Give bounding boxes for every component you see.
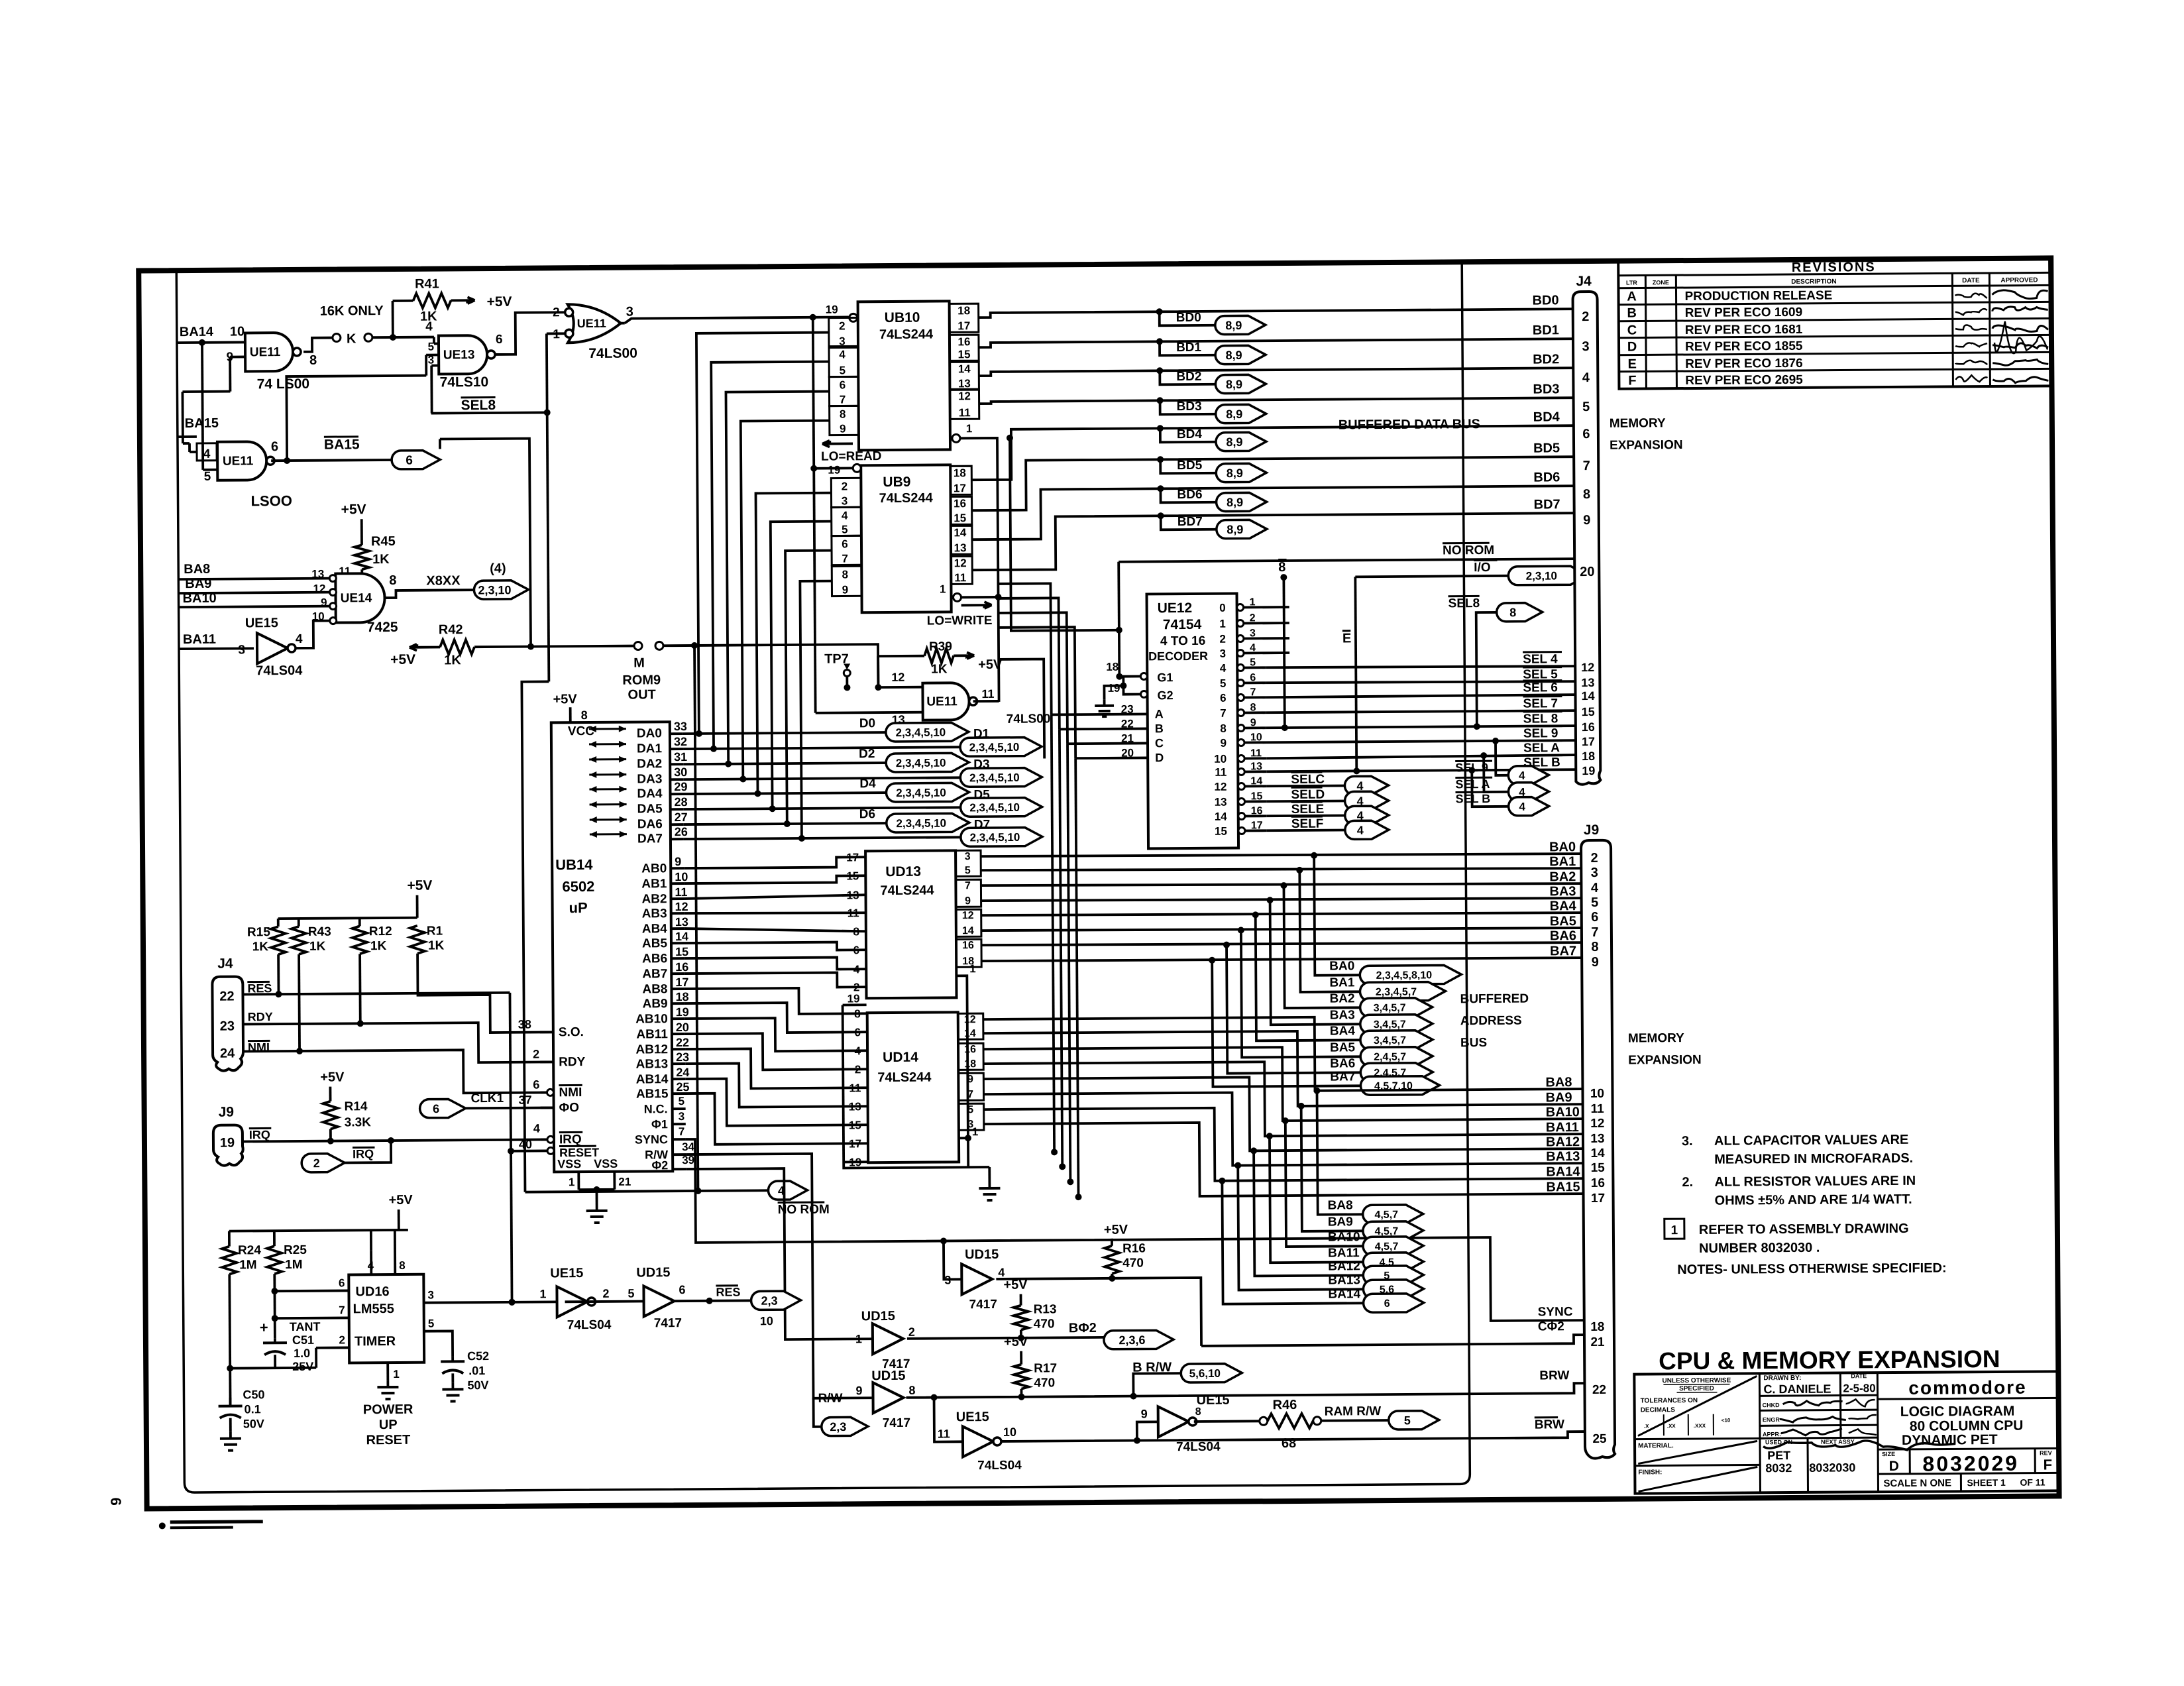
svg-text:1: 1 [855,1332,862,1345]
svg-text:D6: D6 [859,807,875,821]
svg-text:7417: 7417 [969,1298,997,1312]
capacitor C52 [451,1357,454,1361]
svg-text:12: 12 [962,910,974,921]
svg-text:2: 2 [553,306,560,319]
svg-text:+5V: +5V [1003,1278,1028,1292]
svg-text:6: 6 [533,1078,539,1092]
svg-text:1: 1 [966,422,973,435]
svg-text:10: 10 [760,1314,773,1327]
svg-text:AB12: AB12 [635,1042,668,1056]
pin 4 box UE11b [197,443,217,461]
svg-text:B: B [1155,722,1164,735]
svg-text:SYNC: SYNC [1538,1305,1573,1319]
svg-text:17: 17 [675,976,688,989]
svg-text:BA3: BA3 [1330,1008,1355,1022]
svg-text:22: 22 [219,989,234,1004]
wire UD15b output via R16 node [996,1278,1112,1279]
svg-text:4: 4 [425,320,433,334]
svg-text:1: 1 [393,1368,400,1380]
wire R/W down to buffer UD15d [686,1153,871,1399]
nand gate UE11c (negative-OR) 74LS00 [568,304,621,343]
UD16 pin 6 [274,1290,349,1293]
svg-text:BA8: BA8 [1328,1198,1353,1212]
svg-text:AB6: AB6 [642,952,667,966]
svg-text:DA2: DA2 [637,757,662,771]
svg-text:OF 11: OF 11 [2020,1477,2045,1487]
svg-text:BA13: BA13 [1328,1273,1360,1287]
svg-text:1M: 1M [239,1258,257,1272]
svg-text:470: 470 [1034,1317,1055,1331]
svg-text:uP: uP [569,899,588,916]
svg-text:S.O.: S.O. [559,1025,584,1039]
svg-text:UB10: UB10 [885,310,920,325]
svg-text:27: 27 [675,811,688,824]
CPU DA0-DA7 pins with arrows [589,728,626,730]
svg-text:BA15: BA15 [324,437,360,452]
svg-text:6: 6 [339,1276,345,1289]
UD16 pin 7 [275,1317,349,1320]
svg-text:BA10: BA10 [1546,1105,1580,1119]
svg-text:2.: 2. [1682,1175,1693,1190]
svg-text:R/W: R/W [818,1392,842,1406]
svg-text:SELF: SELF [1291,817,1324,831]
svg-text:10: 10 [1003,1426,1016,1439]
svg-text:12: 12 [954,557,967,569]
svg-text:17: 17 [954,482,966,494]
wire jumper to UE11d pin 12 [663,644,922,689]
svg-text:8: 8 [1220,722,1227,735]
svg-text:.01: .01 [468,1364,485,1377]
svg-text:9: 9 [1220,737,1227,750]
svg-text:8: 8 [842,568,849,581]
svg-text:4: 4 [1519,769,1525,782]
svg-text:8: 8 [840,408,846,420]
svg-text:SHEET 1: SHEET 1 [1967,1477,2006,1488]
svg-text:22: 22 [676,1036,689,1049]
svg-text:REV PER ECO 1609: REV PER ECO 1609 [1685,306,1803,320]
svg-text:UD15: UD15 [871,1369,905,1383]
svg-text:4,5,7: 4,5,7 [1375,1241,1399,1253]
svg-text:1K: 1K [309,940,326,954]
svg-text:Φ1: Φ1 [651,1117,668,1131]
svg-text:18: 18 [957,304,970,317]
svg-text:AB13: AB13 [636,1057,669,1071]
svg-text:74LS04: 74LS04 [256,663,303,678]
svg-text:OHMS ±5% AND ARE 1/4 WATT.: OHMS ±5% AND ARE 1/4 WATT. [1715,1192,1912,1208]
svg-text:LOGIC DIAGRAM: LOGIC DIAGRAM [1900,1404,2015,1420]
svg-text:1: 1 [569,1176,575,1188]
UB10 pin 19 enable bubble [849,313,857,321]
svg-text:3: 3 [679,1110,685,1123]
svg-text:3.3K: 3.3K [345,1115,372,1129]
svg-text:BA1: BA1 [1329,976,1355,989]
svg-text:R41: R41 [415,277,439,292]
svg-text:6: 6 [679,1283,685,1296]
svg-text:UD14: UD14 [883,1050,918,1065]
svg-text:LSOO: LSOO [250,492,292,509]
svg-text:5: 5 [839,364,846,376]
wire UD15b input from SYNC line [944,1241,961,1279]
svg-text:8: 8 [309,353,317,368]
svg-text:UB9: UB9 [883,475,910,490]
svg-text:1K: 1K [428,938,445,952]
svg-text:C: C [1627,323,1637,338]
svg-text:+5V: +5V [320,1070,345,1084]
svg-text:NEXT ASSY: NEXT ASSY [1821,1438,1855,1445]
svg-text:33: 33 [674,720,687,733]
svg-text:REV: REV [2040,1449,2052,1456]
wires BA8-BA15 staircase from UD14 to J9 [983,1015,1583,1093]
svg-text:14: 14 [954,526,967,539]
svg-text:80 COLUMN CPU: 80 COLUMN CPU [1910,1418,2024,1434]
svg-text:2: 2 [339,1333,345,1346]
svg-text:UE15: UE15 [956,1410,989,1424]
size and drawing number row [1878,1473,2059,1474]
svg-text:8,9: 8,9 [1225,319,1242,332]
svg-text:32: 32 [674,735,687,748]
svg-text:19: 19 [826,304,838,316]
svg-text:SEL8: SEL8 [461,398,496,413]
svg-text:+5V: +5V [1004,1335,1028,1349]
svg-text:21: 21 [618,1176,631,1188]
svg-text:IRQ: IRQ [249,1128,270,1141]
wire R1 to CPU S.O. pin 38 [417,952,553,1033]
wires CPU AB8-AB15 cascade to UD14 [684,987,867,1015]
svg-text:15: 15 [958,348,971,361]
UB10 left pin pair brackets [829,317,858,347]
svg-text:R46: R46 [1273,1398,1297,1412]
wire UE11d output to enable riser [973,700,999,702]
wire RES from J4-22 [243,993,510,995]
svg-text:DYNAMIC PET: DYNAMIC PET [1902,1432,1998,1448]
svg-text:+5V: +5V [1104,1223,1128,1237]
svg-text:4,5,7: 4,5,7 [1374,1209,1398,1221]
BA0-BA7 flag drops [1311,852,1317,859]
decoder UE12 74154 4-to-16 [1147,594,1239,849]
svg-text:2,3,10: 2,3,10 [1526,569,1557,582]
svg-text:AB8: AB8 [642,982,667,996]
svg-text:ALL RESISTOR VALUES ARE IN: ALL RESISTOR VALUES ARE IN [1714,1174,1916,1190]
wire IRQ flag tap [345,1141,391,1162]
used on box [1760,1437,1878,1438]
svg-text:3,4,5,7: 3,4,5,7 [1374,1035,1406,1046]
wires BA0-BA7 from UD13 to J9 [981,852,1581,858]
resistor R24 1M [228,1231,231,1247]
sheet outer border frame [138,258,2059,1508]
wire NMI from J4-24 [243,1049,547,1094]
svg-text:15: 15 [849,1119,861,1131]
capacitor C50 [229,1398,232,1406]
svg-text:1M: 1M [285,1258,303,1272]
svg-text:10: 10 [675,870,688,883]
svg-text:8,9: 8,9 [1226,349,1242,362]
inner drawing frame [176,264,1470,1492]
wire SEL8 chain down to NO ROM logic [521,681,552,1192]
svg-text:DA4: DA4 [637,787,663,801]
wire NO ROM riser down from DA area [694,646,698,1191]
svg-text:2: 2 [1219,633,1226,646]
svg-text:BA9: BA9 [1328,1215,1353,1229]
svg-text:C. DANIELE: C. DANIELE [1763,1382,1831,1396]
svg-text:1K: 1K [444,653,461,667]
svg-text:74LS244: 74LS244 [880,883,934,899]
svg-text:BA0: BA0 [1549,840,1576,854]
svg-text:A: A [1627,290,1637,304]
svg-text:4: 4 [1519,801,1525,813]
svg-text:2-5-80: 2-5-80 [1843,1382,1875,1394]
svg-text:DA7: DA7 [637,832,663,846]
svg-text:6: 6 [853,944,860,956]
resistor R43 1K [292,927,306,954]
svg-text:CΦ2: CΦ2 [1538,1320,1564,1333]
svg-text:REFER TO ASSEMBLY DRAWING: REFER TO ASSEMBLY DRAWING [1699,1221,1909,1237]
svg-text:LM555: LM555 [353,1302,394,1316]
svg-text:2,3,4,5,10: 2,3,4,5,10 [896,817,946,830]
svg-text:E: E [1627,357,1636,372]
svg-text:RDY: RDY [248,1010,273,1023]
svg-text:+5V: +5V [553,692,577,706]
svg-text:4: 4 [1357,824,1364,837]
svg-text:UB14: UB14 [555,856,593,873]
svg-text:9: 9 [1592,955,1599,970]
svg-text:D: D [1627,340,1637,355]
wire C02 to J9 pin 21 [1201,1335,1584,1346]
svg-text:29: 29 [674,780,687,793]
svg-text:7: 7 [339,1304,345,1316]
svg-text:8,9: 8,9 [1227,467,1243,480]
svg-text:21: 21 [1590,1335,1605,1349]
svg-text:5: 5 [842,523,848,535]
svg-text:R13: R13 [1034,1302,1057,1316]
svg-text:16: 16 [964,1044,976,1055]
svg-text:EXPANSION: EXPANSION [1628,1053,1702,1068]
wire UE11c output to UB10 pin19 [621,322,625,325]
svg-text:BA9: BA9 [1545,1090,1572,1105]
svg-text:REVISIONS: REVISIONS [1792,260,1876,275]
svg-text:2,3,4,5,10: 2,3,4,5,10 [896,787,946,800]
svg-text:REV PER ECO 1855: REV PER ECO 1855 [1685,339,1803,354]
svg-text:11: 11 [981,687,994,701]
svg-text:12: 12 [958,390,971,402]
svg-text:25: 25 [676,1080,689,1094]
BA8-BA14 flag drops [1313,1088,1320,1094]
svg-text:UE14: UE14 [341,591,372,605]
svg-text:19: 19 [676,1005,689,1019]
wire I/O flag tap [1355,576,1508,577]
svg-text:2,3,4,5,8,10: 2,3,4,5,8,10 [1376,970,1433,982]
flag 2,3 (R/W from sheets) [822,1417,868,1435]
tolerances diagonal [1637,1376,1757,1435]
svg-text:AB5: AB5 [642,936,668,950]
svg-text:F: F [1628,374,1636,388]
svg-text:8,9: 8,9 [1226,435,1242,449]
svg-text:CPU & MEMORY EXPANSION: CPU & MEMORY EXPANSION [1659,1345,2000,1375]
wire UE11b output to flag [271,460,392,461]
svg-text:3,4,5,7: 3,4,5,7 [1374,1019,1406,1031]
address select bus verticals up and left [998,583,1051,715]
svg-text:BD3: BD3 [1177,400,1202,414]
svg-text:6: 6 [854,1026,861,1039]
svg-text:UE15: UE15 [245,616,278,630]
svg-text:2,3,4,5,10: 2,3,4,5,10 [896,726,946,740]
svg-text:BA15: BA15 [1546,1180,1580,1194]
UD16 pin 1 ground [386,1363,389,1380]
svg-text:UD15: UD15 [861,1309,895,1323]
SELC-SELF wires and flags to sheet 4 [1266,785,1344,788]
svg-text:BA6: BA6 [1330,1056,1355,1070]
svg-text:15: 15 [846,870,859,882]
svg-text:1K: 1K [372,552,390,567]
svg-text:6: 6 [840,378,846,391]
svg-text:17: 17 [846,851,859,864]
svg-text:13: 13 [958,377,971,390]
svg-text:19: 19 [220,1136,235,1151]
svg-text:1: 1 [940,583,946,595]
svg-text:UNLESS OTHERWISE: UNLESS OTHERWISE [1663,1377,1731,1385]
svg-text:SELE: SELE [1291,803,1325,816]
svg-text:11: 11 [1215,766,1227,779]
svg-text:commodore: commodore [1908,1377,2026,1398]
svg-text:REV PER ECO 1681: REV PER ECO 1681 [1685,323,1803,337]
svg-text:SELD: SELD [1291,788,1325,802]
svg-text:BA8: BA8 [1545,1075,1572,1090]
junction to UB9 pin19 [810,314,816,321]
UB10 pin 1 enable bottom [952,434,960,442]
svg-text:5: 5 [428,1318,435,1330]
wire E enable staircase [999,659,1044,758]
svg-text:<10: <10 [1721,1418,1731,1424]
svg-text:8,9: 8,9 [1227,496,1243,509]
svg-text:MEMORY: MEMORY [1628,1031,1684,1046]
svg-text:ROM9: ROM9 [622,673,661,687]
svg-text:8: 8 [854,1007,861,1020]
buffer UB9 74LS244 [861,465,951,612]
svg-text:5: 5 [679,1095,685,1107]
svg-text:D4: D4 [859,777,876,791]
svg-text:68: 68 [1282,1436,1296,1451]
svg-text:0.1: 0.1 [245,1402,261,1416]
svg-text:UP: UP [379,1418,398,1432]
svg-text:G1: G1 [1157,671,1173,684]
svg-text:UE11: UE11 [223,454,254,468]
svg-text:UE12: UE12 [1158,600,1193,616]
svg-text:UD13: UD13 [885,864,921,879]
svg-text:AB7: AB7 [642,967,667,981]
svg-text:.XX: .XX [1667,1423,1676,1429]
svg-text:BA2: BA2 [1329,991,1354,1005]
svg-text:.X: .X [1644,1423,1649,1429]
UD13/UD14 enable pins tied to ground [843,1005,844,1162]
svg-text:+5V: +5V [407,878,432,893]
svg-text:2: 2 [602,1287,609,1300]
svg-text:TIMER: TIMER [355,1334,396,1349]
svg-text:28: 28 [674,795,687,809]
svg-text:AB4: AB4 [642,922,668,936]
junction R41 to K line [390,334,396,341]
svg-text:3: 3 [1582,339,1589,354]
nand gate UE13 74LS10 [439,335,487,374]
svg-text:SCALE N ONE: SCALE N ONE [1883,1477,1951,1489]
svg-text:9: 9 [842,583,849,596]
svg-text:74LS04: 74LS04 [1176,1440,1221,1454]
svg-text:1: 1 [539,1287,546,1300]
svg-text:8: 8 [1591,940,1598,954]
svg-text:7425: 7425 [367,620,398,635]
resistor R45 1K [355,545,369,569]
svg-text:AB1: AB1 [641,877,667,891]
svg-text:4: 4 [1582,370,1590,385]
svg-text:R14: R14 [345,1099,368,1113]
wire UE11a output to K jumper [303,338,333,352]
svg-text:BUFFERED: BUFFERED [1460,992,1529,1007]
svg-text:74154: 74154 [1163,617,1202,632]
UB9 right pin pair brackets and BD4-BD7 lines [950,466,971,494]
svg-text:4: 4 [1220,662,1227,675]
svg-text:BD1: BD1 [1176,341,1202,355]
svg-text:11: 11 [954,571,966,584]
svg-text:BD4: BD4 [1533,410,1560,424]
svg-text:BA14: BA14 [180,325,214,339]
svg-text:ΦO: ΦO [559,1101,580,1115]
wire C50 C51 common [230,1367,316,1370]
svg-text:LO=WRITE: LO=WRITE [927,614,993,628]
svg-text:4: 4 [855,1044,861,1057]
svg-text:37: 37 [518,1094,531,1107]
label LO=READ with arrow [822,442,853,445]
svg-text:(4): (4) [490,561,506,576]
svg-text:10: 10 [1590,1087,1604,1101]
svg-text:BA9: BA9 [185,577,211,591]
BD stub flags 8,9 [1156,308,1163,315]
svg-text:50V: 50V [243,1417,264,1430]
svg-text:BUS: BUS [1460,1036,1487,1050]
svg-text:2: 2 [1591,851,1598,866]
svg-text:DATE: DATE [1851,1373,1867,1379]
data bus D0-D7 lines from CPU to sheet flags [683,732,886,734]
svg-text:CHKD: CHKD [1763,1402,1780,1408]
svg-text:APPR:: APPR: [1763,1431,1781,1437]
svg-text:2,4,5,7: 2,4,5,7 [1374,1052,1406,1063]
svg-text:D2: D2 [859,747,875,761]
svg-text:8,9: 8,9 [1227,523,1243,536]
svg-text:8: 8 [1583,487,1590,502]
svg-text:8,9: 8,9 [1226,378,1242,391]
svg-text:TOLERANCES ON: TOLERANCES ON [1641,1397,1698,1405]
svg-text:VSS: VSS [594,1157,618,1170]
svg-text:BD6: BD6 [1533,470,1560,484]
svg-text:3: 3 [238,643,245,657]
svg-text:2,3,4,5,10: 2,3,4,5,10 [969,801,1020,815]
svg-text:12: 12 [1581,661,1594,674]
svg-text:8: 8 [853,925,859,938]
svg-text:4: 4 [839,348,846,361]
ground C50 [229,1432,232,1439]
svg-text:4: 4 [203,447,211,461]
UB9 pin 1 enable bottom [953,593,961,601]
ground UD13/UD14 [988,1182,991,1188]
svg-text:5: 5 [204,470,211,484]
nand gate UE11 (BA14) [245,333,293,371]
svg-text:R42: R42 [439,622,463,637]
svg-text:BD0: BD0 [1533,293,1559,308]
svg-text:13: 13 [675,915,688,928]
wire BA15-bar branch down to ROM9 jumper line [440,439,531,647]
svg-text:C52: C52 [467,1349,489,1363]
resistor R12 1K [353,926,367,954]
svg-text:DA6: DA6 [637,817,663,831]
wires UE13 inputs [433,337,435,344]
svg-text:10: 10 [1214,753,1227,765]
